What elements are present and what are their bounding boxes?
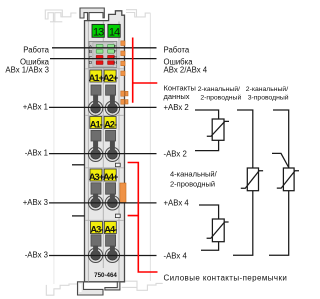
RTD sensor 4 body bbox=[283, 168, 294, 191]
module bottom right foot bbox=[105, 282, 120, 290]
LED A (green, run) bbox=[96, 45, 103, 49]
svg-text:+АВх 3: +АВх 3 bbox=[23, 198, 48, 207]
RTD sensor 2 body bbox=[212, 219, 224, 242]
svg-text:+АВх 1: +АВх 1 bbox=[23, 102, 48, 111]
wire: +ABx1/+ABx2 terminal line bbox=[49, 106, 157, 108]
wire slot channels between squares and screw terminals bbox=[93, 95, 115, 256]
wire entry square A2- bbox=[106, 130, 116, 141]
terminal label A4+ bbox=[104, 169, 116, 181]
svg-text:A2+: A2+ bbox=[103, 73, 119, 83]
svg-text:2-канальный/: 2-канальный/ bbox=[198, 85, 240, 93]
LED row letters E-H bbox=[113, 44, 117, 65]
svg-text:Силовые контакты-перемычки: Силовые контакты-перемычки bbox=[164, 273, 288, 282]
svg-text:Работа: Работа bbox=[164, 46, 190, 55]
svg-text:A4-: A4- bbox=[104, 225, 117, 235]
svg-text:14: 14 bbox=[109, 26, 120, 38]
status indicator 14 bbox=[108, 24, 120, 37]
svg-text:+АВх 2: +АВх 2 bbox=[164, 103, 189, 112]
ghost outline of adjacent module (left neighbour), top latch profile bbox=[45, 10, 76, 22]
screw terminal A2- bbox=[105, 147, 119, 161]
tick mark lower jumper contact (left) bbox=[72, 215, 85, 217]
ghost left neighbour bottom latch profile bbox=[46, 284, 77, 295]
RTD sensor 4 diagonal bbox=[277, 171, 299, 188]
red bracket: data contacts bbox=[133, 38, 158, 103]
LED E (green, run) bbox=[108, 45, 115, 49]
ghost left neighbour vertical edge bbox=[53, 22, 55, 284]
wire entry square A3+ bbox=[91, 183, 101, 194]
RTD sensor 3 body bbox=[247, 168, 258, 191]
RTD sensor 4 third wire bbox=[272, 153, 289, 167]
RTD sensor 2 diagonal bbox=[207, 222, 229, 238]
module 750-464 body bbox=[85, 11, 125, 282]
wire entry square A1+ bbox=[91, 85, 101, 95]
svg-text:2-проводный: 2-проводный bbox=[200, 94, 241, 102]
module face seam lines bbox=[88, 22, 119, 282]
ghost right neighbour vertical edge bbox=[149, 13, 151, 281]
screw terminal A4- bbox=[105, 248, 119, 262]
svg-text:A2-: A2- bbox=[104, 120, 117, 130]
svg-text:АВх 2/АВх 4: АВх 2/АВх 4 bbox=[164, 65, 208, 74]
data jumper contact (upper, right edge) bbox=[115, 163, 120, 167]
svg-text:-АВх 4: -АВх 4 bbox=[164, 251, 188, 260]
svg-text:-АВх 3: -АВх 3 bbox=[25, 251, 48, 260]
wire entry square A4- bbox=[106, 235, 116, 246]
orange power-jumper contact block (right edge, lower) bbox=[120, 183, 126, 202]
svg-text:A1-: A1- bbox=[90, 120, 103, 130]
wire: +ABx3/+ABx4 terminal line bbox=[49, 202, 157, 204]
wire entry square A1- bbox=[91, 130, 101, 141]
screw terminal A3- bbox=[88, 248, 102, 262]
wire: -ABx1/-ABx2 terminal line bbox=[49, 153, 157, 155]
screw terminal A2+ bbox=[105, 101, 119, 115]
tick mark upper jumper contact (left) bbox=[72, 164, 85, 166]
wire entry square A3- bbox=[91, 235, 101, 246]
svg-text:АВх 1/АВх 3: АВх 1/АВх 3 bbox=[5, 65, 49, 74]
svg-text:-АВх 2: -АВх 2 bbox=[164, 149, 187, 158]
terminal label A1- bbox=[90, 117, 102, 129]
svg-text:данных: данных bbox=[164, 92, 190, 101]
screw terminal A1+ bbox=[88, 101, 102, 115]
LED G (red, error) bbox=[108, 55, 115, 59]
wire: error LED line (Ошибка) bbox=[50, 58, 157, 60]
RTD sensor 1 diagonal bbox=[207, 121, 229, 136]
RTD sensor 1 body bbox=[212, 119, 224, 140]
terminal label A2- bbox=[104, 117, 116, 129]
red bracket: power jumper contacts bbox=[128, 163, 158, 273]
module bottom left foot bbox=[78, 282, 104, 295]
svg-text:H: H bbox=[114, 60, 117, 65]
data jumper contact (lower, right edge) bbox=[115, 214, 120, 218]
screw terminal A1- bbox=[88, 147, 102, 161]
svg-text:750-464: 750-464 bbox=[94, 272, 117, 279]
svg-text:+АВх 4: +АВх 4 bbox=[164, 199, 190, 208]
terminal label A2+ bbox=[104, 70, 116, 82]
svg-text:F: F bbox=[114, 49, 117, 54]
wire: -ABx3/-ABx4 terminal line bbox=[49, 255, 157, 257]
orange power-jumper contact tabs on right edge bbox=[121, 41, 128, 104]
LED C (red, error) bbox=[96, 55, 103, 59]
svg-text:A4+: A4+ bbox=[103, 172, 119, 182]
LED F (green) bbox=[108, 50, 115, 54]
terminal label A4- bbox=[104, 222, 116, 234]
LED D (red) bbox=[96, 61, 103, 65]
svg-text:B: B bbox=[89, 49, 92, 54]
screw terminal A4+ bbox=[105, 196, 119, 210]
svg-text:13: 13 bbox=[93, 26, 104, 38]
svg-text:3-проводный: 3-проводный bbox=[248, 94, 289, 102]
svg-text:Работа: Работа bbox=[23, 46, 49, 55]
LED row letters A-D bbox=[89, 44, 93, 65]
RTD sensor 2 (channel 4, 2-wire) wires bbox=[199, 205, 219, 250]
terminal label A1+ bbox=[90, 70, 102, 82]
module face horizontal section seams bbox=[85, 69, 124, 221]
svg-text:2-канальный/: 2-канальный/ bbox=[246, 85, 288, 93]
LED H (red) bbox=[108, 61, 115, 65]
ghost right neighbour bottom latch profile bbox=[122, 281, 163, 290]
RTD sensor 1 (channel 2, 2-wire) wires bbox=[195, 110, 219, 151]
ghost outline of adjacent module (right neighbour), top latch profile bbox=[126, 10, 150, 17]
module release latch (top) bbox=[80, 8, 104, 21]
wire entry square A4+ bbox=[106, 183, 116, 194]
screw terminal A3+ bbox=[88, 196, 102, 210]
RTD sensor 4 (2-channel 3-wire mode) wires bbox=[269, 110, 289, 255]
svg-text:-АВх 1: -АВх 1 bbox=[25, 149, 48, 158]
terminal label A3- bbox=[90, 222, 102, 234]
svg-text:2-проводный: 2-проводный bbox=[170, 180, 215, 189]
LED B (green) bbox=[96, 50, 103, 54]
status indicator 13 bbox=[92, 24, 104, 37]
LED panel bbox=[89, 42, 117, 68]
svg-text:4-канальный/: 4-канальный/ bbox=[170, 170, 218, 179]
terminal label A3+ bbox=[90, 169, 102, 181]
wire: run LED line (Работа) bbox=[52, 47, 157, 49]
RTD sensor 3 (4-channel 2-wire mode) wires bbox=[233, 110, 253, 255]
RTD sensor 3 diagonal bbox=[241, 171, 263, 189]
wire entry square A2+ bbox=[106, 85, 116, 95]
svg-text:A3-: A3- bbox=[90, 225, 103, 235]
